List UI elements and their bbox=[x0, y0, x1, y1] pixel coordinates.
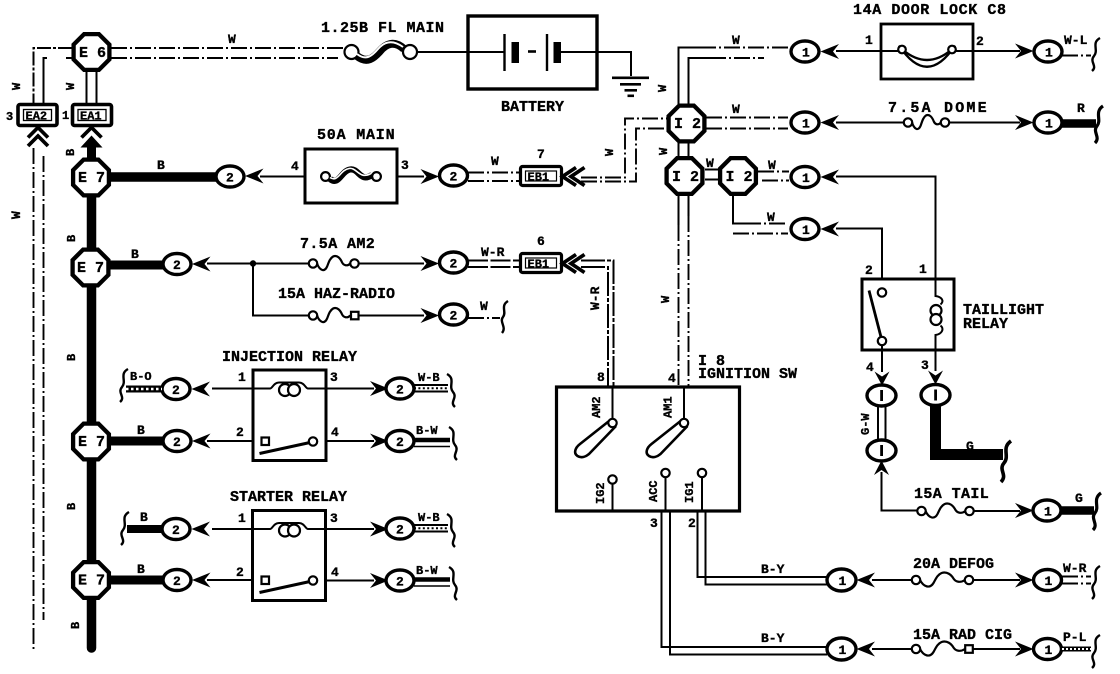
arrow right starter row2 bbox=[370, 573, 389, 588]
svg-text:1: 1 bbox=[1045, 117, 1053, 132]
svg-text:2: 2 bbox=[173, 435, 181, 450]
wire: I2 no.1 to I2 no.2 link bbox=[679, 142, 689, 157]
svg-text:AM1: AM1 bbox=[662, 396, 676, 418]
svg-text:R: R bbox=[1077, 101, 1085, 116]
wire B-O hatched left of oval bbox=[126, 386, 162, 393]
fuse 15A TAIL bbox=[917, 503, 973, 517]
svg-text:EA1: EA1 bbox=[80, 110, 102, 124]
squiggle right B-W injection bbox=[449, 427, 457, 460]
svg-text:2: 2 bbox=[173, 574, 181, 589]
wire: pin4 down bbox=[881, 350, 883, 372]
wire P-L hatched bbox=[1062, 647, 1091, 652]
wire: starter row1 left bbox=[212, 528, 253, 530]
svg-text:B: B bbox=[69, 622, 83, 629]
wire: I2 no.1 up to door lock row (W pair) bbox=[679, 48, 789, 105]
svg-text:B: B bbox=[131, 247, 139, 262]
connector oval 1 dome right bbox=[1034, 112, 1062, 133]
wire: 50A box to right arrow bbox=[397, 176, 424, 178]
wire bar B: E7#1 to connector bbox=[92, 172, 220, 182]
arrow left door lock bbox=[821, 44, 840, 59]
connector EA2 box bbox=[18, 105, 57, 126]
arrow left starter row1 bbox=[192, 522, 211, 537]
svg-text:B-Y: B-Y bbox=[761, 562, 785, 577]
wire: to taillight relay pin 1 bbox=[836, 177, 936, 280]
svg-text:W: W bbox=[64, 82, 78, 90]
svg-text:B: B bbox=[65, 354, 79, 361]
arrow right injection row1 bbox=[370, 381, 389, 396]
wire: E6 right upper W dash-dot to fusible link bbox=[111, 47, 344, 49]
connector oval 2 row 50A left bbox=[216, 166, 244, 187]
svg-text:1: 1 bbox=[865, 33, 873, 48]
wire: W-R pair to EB1-6 bbox=[468, 261, 520, 268]
arrow left pin1 row bbox=[821, 170, 840, 185]
svg-text:3: 3 bbox=[330, 370, 338, 385]
svg-text:IG1: IG1 bbox=[683, 481, 697, 503]
wire: EB1-7 dash-dot up to I2 no.1 bbox=[581, 119, 667, 178]
AM1 contact and wire bbox=[683, 387, 685, 419]
svg-text:W: W bbox=[480, 299, 488, 314]
wire: W-R from EB1-6 down to ignition pin 8 bbox=[581, 261, 614, 388]
svg-text:ACC: ACC bbox=[647, 480, 661, 502]
svg-text:1: 1 bbox=[802, 46, 810, 61]
wire: arrow to 50A box bbox=[260, 176, 305, 178]
fuse 7.5A AM2 bbox=[309, 256, 359, 270]
svg-text:W: W bbox=[706, 156, 714, 171]
wire: injection row2 right bbox=[326, 440, 374, 442]
wire: to taillight relay pin 2 bbox=[836, 229, 882, 280]
arrow left at 50A row bbox=[245, 169, 264, 184]
squiggle right B-W starter bbox=[449, 567, 457, 600]
wire: arrow to door lock box bbox=[836, 50, 881, 52]
connector oval 1 defog left bbox=[827, 569, 856, 591]
svg-text:EA2: EA2 bbox=[26, 110, 48, 124]
svg-text:W: W bbox=[767, 210, 775, 225]
svg-text:EB1: EB1 bbox=[528, 171, 550, 185]
arrow right at AM2 row bbox=[421, 256, 440, 271]
lever AM2 bbox=[575, 419, 617, 457]
squiggle left B starter bbox=[121, 512, 129, 545]
svg-text:4: 4 bbox=[331, 565, 339, 580]
wire G thick from pin3 oval bbox=[936, 406, 1004, 455]
arrow right starter row1 bbox=[370, 522, 389, 537]
svg-text:1: 1 bbox=[238, 370, 246, 385]
octagon E7 no.2 bbox=[73, 250, 109, 286]
squiggle R end bbox=[1095, 106, 1103, 143]
connector oval 2 starter row2 left bbox=[163, 570, 191, 591]
taillight relay coil bbox=[931, 279, 943, 350]
wire B thick left of oval bbox=[127, 525, 162, 533]
wire: E6 bottom to EA1 (two verticals) bbox=[87, 70, 97, 104]
wire: I2 no.2 to I2 no.3 link bbox=[705, 170, 719, 180]
wire: injection row1 right to arrow bbox=[326, 388, 374, 390]
svg-text:W: W bbox=[657, 147, 671, 155]
arrow down pin3 bbox=[928, 371, 943, 385]
svg-text:2: 2 bbox=[450, 309, 458, 324]
svg-text:14A DOOR LOCK C8: 14A DOOR LOCK C8 bbox=[853, 2, 1007, 19]
svg-text:B-O: B-O bbox=[130, 370, 152, 384]
arrow up below G-W oval bbox=[874, 461, 889, 476]
ACC contact and wire bbox=[661, 469, 669, 510]
wire: injection row1 left bbox=[212, 388, 253, 390]
svg-text:B: B bbox=[65, 235, 79, 242]
arrow right defog bbox=[1015, 573, 1034, 588]
octagon I2 no.2 bbox=[667, 158, 703, 194]
svg-text:1: 1 bbox=[62, 109, 69, 123]
wire B-Y: IG1 to defog row bbox=[698, 511, 828, 585]
arrow right dome bbox=[1015, 115, 1034, 130]
svg-text:2: 2 bbox=[172, 383, 180, 398]
svg-text:E 6: E 6 bbox=[79, 45, 106, 62]
octagon E7 no.4 bbox=[73, 562, 109, 598]
svg-text:3: 3 bbox=[650, 516, 658, 531]
switch contacts starter relay bbox=[260, 576, 318, 592]
svg-text:B: B bbox=[137, 562, 145, 577]
breaker element bbox=[881, 46, 973, 67]
AM2 contact and wire bbox=[612, 387, 614, 419]
svg-text:8: 8 bbox=[597, 370, 605, 385]
svg-text:2: 2 bbox=[173, 258, 181, 273]
chevron arrows under EA2 bbox=[28, 128, 48, 147]
wire: EA2 down W dash-dot pair to bottom bbox=[34, 148, 44, 650]
squiggle W-L end bbox=[1092, 38, 1100, 71]
connector EB1 box no.7 bbox=[521, 167, 562, 186]
svg-text:W: W bbox=[768, 158, 776, 173]
svg-text:2: 2 bbox=[976, 34, 984, 49]
double chevron at EB1-6 bbox=[563, 255, 585, 273]
svg-text:INJECTION RELAY: INJECTION RELAY bbox=[222, 349, 357, 366]
svg-text:W: W bbox=[10, 82, 24, 90]
connector oval 1 rad cig left bbox=[827, 638, 856, 660]
arrow down pin4 bbox=[875, 372, 890, 386]
connector oval 2 injection row2 right bbox=[386, 431, 414, 452]
double chevron at EB1-7 bbox=[563, 168, 585, 186]
svg-text:W-R: W-R bbox=[481, 245, 505, 260]
octagon E6 bbox=[74, 34, 110, 70]
connector oval 2 row HAZ right bbox=[440, 304, 468, 325]
connector oval 1 door lock left bbox=[791, 41, 819, 62]
wire W-L dash bbox=[1062, 55, 1091, 57]
wire bar B: E7#4 to connector bbox=[92, 576, 166, 585]
wire: battery to ground bbox=[597, 52, 631, 76]
wire R thick bbox=[1062, 119, 1096, 128]
ground symbol bbox=[612, 78, 649, 96]
connector oval 1 tail right bbox=[1033, 500, 1061, 521]
squiggle left B-O bbox=[120, 369, 128, 402]
coil injection relay bbox=[253, 383, 326, 397]
svg-text:W: W bbox=[228, 32, 236, 47]
svg-text:2: 2 bbox=[396, 435, 404, 450]
svg-text:W: W bbox=[491, 154, 499, 169]
svg-text:1: 1 bbox=[238, 511, 246, 526]
svg-text:3: 3 bbox=[401, 158, 409, 173]
svg-text:E 7: E 7 bbox=[78, 170, 105, 187]
wire: pin3 down bbox=[935, 350, 937, 371]
arrow left defog bbox=[857, 573, 876, 588]
taillight relay contacts and blade bbox=[869, 288, 886, 350]
squiggle G end bbox=[1001, 441, 1011, 482]
svg-text:2: 2 bbox=[226, 171, 234, 186]
svg-text:50A MAIN: 50A MAIN bbox=[317, 127, 395, 144]
fusible link 1.25B FL MAIN symbol bbox=[345, 42, 418, 60]
wire: E6 left lower to EA2 bbox=[44, 58, 73, 104]
circuit breaker box 14A DOOR LOCK bbox=[881, 24, 973, 79]
svg-text:RELAY: RELAY bbox=[963, 316, 1008, 333]
connector oval 1 dome left bbox=[791, 112, 819, 133]
svg-text:1: 1 bbox=[1045, 574, 1053, 589]
wire: box to right arrow door lock bbox=[973, 50, 1020, 52]
connector oval 1 rad cig right bbox=[1034, 639, 1062, 660]
svg-text:I 2: I 2 bbox=[674, 116, 701, 133]
svg-text:W: W bbox=[732, 33, 740, 48]
svg-text:1: 1 bbox=[802, 171, 810, 186]
wire G-W pair bbox=[878, 406, 886, 441]
svg-text:W: W bbox=[659, 295, 673, 303]
IG2 contact and wire bbox=[608, 475, 616, 509]
wire: fuse to arrow defog bbox=[973, 579, 1020, 581]
svg-text:1: 1 bbox=[1045, 46, 1053, 61]
svg-text:B-W: B-W bbox=[416, 424, 438, 438]
wire: arrow to rad cig fuse bbox=[872, 648, 912, 650]
wire: arrow to dome fuse bbox=[836, 122, 904, 124]
svg-text:2: 2 bbox=[396, 575, 404, 590]
svg-text:B: B bbox=[65, 503, 79, 510]
wire: starter row1 right bbox=[326, 528, 375, 530]
svg-text:E 7: E 7 bbox=[78, 573, 105, 590]
connector oval G-W bottom bbox=[867, 440, 896, 461]
stub W wires to row3 oval bbox=[758, 172, 789, 181]
connector oval 1 relay pin1 feed row bbox=[791, 167, 819, 188]
chevron arrow under EA1 bbox=[82, 128, 102, 138]
arrow left injection row1 bbox=[192, 382, 211, 397]
trunk wire B: main vertical black trunk bbox=[87, 158, 97, 648]
wire: fuse to right arrow dome bbox=[949, 122, 1020, 124]
svg-text:1: 1 bbox=[1045, 643, 1053, 658]
svg-text:W: W bbox=[9, 211, 24, 219]
wire: junction down to HAZ-RADIO fuse bbox=[253, 264, 309, 316]
svg-text:W: W bbox=[732, 102, 740, 117]
squiggle P-L end bbox=[1092, 635, 1100, 668]
connector EB1 box no.6 bbox=[521, 254, 562, 273]
wire: fuse to right arrow HAZ row bbox=[359, 315, 424, 317]
squiggle end HAZ W wire bbox=[502, 301, 508, 333]
svg-text:1: 1 bbox=[839, 574, 847, 589]
svg-text:1: 1 bbox=[839, 643, 847, 658]
arrow left pin2 row bbox=[821, 222, 840, 237]
svg-text:IGNITION SW: IGNITION SW bbox=[698, 366, 797, 383]
svg-text:15A RAD CIG: 15A RAD CIG bbox=[913, 627, 1012, 644]
relay box starter bbox=[253, 511, 326, 601]
wire B-Y: ACC to rad cig row bbox=[662, 511, 828, 655]
wire G thick tail bbox=[1061, 506, 1094, 515]
svg-text:B: B bbox=[157, 158, 165, 173]
svg-text:B-Y: B-Y bbox=[761, 631, 785, 646]
arrow left at AM2 row bbox=[192, 257, 211, 272]
arrow left rad cig bbox=[857, 642, 876, 657]
wire: I2 no.2 down to ignition pin 4 dash-dot pair bbox=[679, 194, 689, 387]
connector oval pin3 bbox=[921, 385, 950, 406]
svg-text:2: 2 bbox=[450, 170, 458, 185]
wire W-R dash pair bbox=[1062, 577, 1091, 584]
wire: I2 no.1 right to DOME row (W dash pair) bbox=[706, 118, 788, 129]
svg-text:7.5A DOME: 7.5A DOME bbox=[888, 100, 989, 117]
connector oval G-W top bbox=[867, 385, 896, 406]
connector oval 2 starter row1 right bbox=[386, 518, 414, 539]
connector oval 2 injection row1 left bbox=[162, 379, 190, 400]
octagon I2 no.1 bbox=[669, 106, 705, 142]
wire: arrow to defog fuse bbox=[872, 579, 912, 581]
wire: E6 left upper to EA2 (corner at x33.5) bbox=[34, 48, 73, 104]
svg-text:2: 2 bbox=[396, 383, 404, 398]
svg-text:6: 6 bbox=[537, 234, 545, 249]
svg-text:2: 2 bbox=[236, 565, 244, 580]
svg-text:G: G bbox=[966, 439, 974, 454]
wire W-B right of oval bbox=[414, 385, 448, 392]
connector oval 2 starter row1 left bbox=[162, 519, 190, 540]
svg-text:STARTER RELAY: STARTER RELAY bbox=[230, 489, 347, 506]
wire: fuse to right arrow AM2 row bbox=[359, 263, 424, 265]
connector oval 1 defog right bbox=[1034, 570, 1062, 591]
octagon E7 no.1 bbox=[73, 160, 109, 196]
ignition switch box I8 bbox=[557, 387, 740, 511]
wire: fuse to arrow rad cig bbox=[973, 648, 1020, 650]
wire: fuse to arrow 15A TAIL bbox=[974, 510, 1020, 512]
wire: arrow to relay box starter row2 bbox=[207, 579, 253, 581]
svg-text:P-L: P-L bbox=[1063, 630, 1087, 645]
wire: I2 no.3 down and right to row4 oval bbox=[733, 195, 788, 234]
wire W-B right starter bbox=[414, 525, 448, 532]
svg-text:2: 2 bbox=[865, 263, 873, 278]
arrow right injection row2 bbox=[370, 434, 389, 449]
svg-text:2: 2 bbox=[450, 257, 458, 272]
battery box bbox=[468, 16, 597, 89]
connector oval 2 injection row2 left bbox=[163, 431, 191, 452]
coil starter relay bbox=[253, 523, 326, 537]
svg-text:3: 3 bbox=[921, 358, 929, 373]
connector oval 2 starter row2 right bbox=[386, 570, 414, 591]
svg-text:1: 1 bbox=[802, 117, 810, 132]
octagon E7 no.3 bbox=[73, 424, 109, 460]
arrow right at HAZ row bbox=[421, 308, 440, 323]
fuse 20A DEFOG bbox=[912, 572, 973, 586]
squiggle right W-B starter bbox=[447, 514, 455, 547]
svg-text:1: 1 bbox=[802, 223, 810, 238]
connector oval 2 row 50A right bbox=[440, 165, 468, 186]
arrow right door lock bbox=[1015, 44, 1034, 59]
svg-text:W: W bbox=[603, 148, 617, 156]
junction node dot bbox=[250, 260, 256, 266]
svg-text:7.5A AM2: 7.5A AM2 bbox=[300, 236, 375, 253]
svg-text:B: B bbox=[140, 510, 148, 525]
wire B-W right starter bbox=[414, 580, 450, 587]
svg-text:W-B: W-B bbox=[418, 371, 440, 385]
arrow right at 50A row bbox=[421, 169, 440, 184]
svg-text:4: 4 bbox=[331, 425, 339, 440]
squiggle right W-B injection bbox=[447, 374, 455, 407]
squiggle G tail end bbox=[1093, 493, 1101, 530]
connector oval 2 row AM2 right bbox=[440, 252, 468, 273]
svg-text:I 2: I 2 bbox=[672, 169, 699, 186]
squiggle W-R end bbox=[1092, 566, 1100, 599]
connector EA1 box bbox=[73, 105, 112, 126]
connector oval 2 injection row1 right bbox=[386, 378, 414, 399]
svg-text:2: 2 bbox=[236, 425, 244, 440]
wire: E6 right lower W dash-dot bbox=[111, 57, 338, 59]
wire bar B: E7#3 to connector bbox=[92, 437, 166, 446]
svg-text:1: 1 bbox=[919, 262, 927, 277]
arrow left dome bbox=[821, 115, 840, 130]
fuse box 50A MAIN bbox=[305, 149, 397, 203]
svg-text:1: 1 bbox=[1044, 505, 1052, 520]
relay box injection bbox=[253, 370, 326, 461]
wire: second dash line EB1-7 to I2 bbox=[581, 129, 667, 182]
svg-text:G: G bbox=[1075, 491, 1083, 506]
wire: arrow to relay box row2 bbox=[207, 440, 253, 442]
svg-text:15A TAIL: 15A TAIL bbox=[914, 486, 989, 503]
svg-text:20A DEFOG: 20A DEFOG bbox=[913, 556, 994, 573]
svg-text:W-R: W-R bbox=[588, 286, 603, 310]
lever AM1 bbox=[647, 419, 689, 457]
svg-text:3: 3 bbox=[330, 511, 338, 526]
switch contacts injection relay bbox=[260, 437, 318, 453]
svg-text:B: B bbox=[64, 149, 78, 156]
IG1 contact and wire bbox=[698, 469, 706, 510]
fusible link inside 50A MAIN bbox=[321, 168, 381, 181]
fuse 7.5A DOME bbox=[904, 115, 949, 129]
svg-text:E 7: E 7 bbox=[77, 260, 104, 277]
svg-text:W-B: W-B bbox=[418, 511, 440, 525]
arrow left starter row2 bbox=[192, 573, 211, 588]
svg-text:3: 3 bbox=[6, 110, 13, 124]
svg-text:4: 4 bbox=[668, 371, 676, 386]
svg-text:2: 2 bbox=[688, 516, 696, 531]
wire: down and right to 15A TAIL fuse bbox=[882, 472, 918, 511]
wire: W dash pair to EB1-7 bbox=[468, 173, 520, 182]
svg-text:4: 4 bbox=[866, 360, 874, 375]
svg-text:1.25B FL MAIN: 1.25B FL MAIN bbox=[321, 20, 445, 37]
arrow right 15A TAIL bbox=[1015, 503, 1034, 518]
arrow left injection row2 bbox=[192, 434, 211, 449]
wire bar B: E7#2 to connector bbox=[92, 261, 166, 270]
svg-text:2: 2 bbox=[396, 523, 404, 538]
wire: W dash to squiggle bbox=[468, 317, 500, 319]
fuse 15A HAZ-RADIO bbox=[309, 308, 359, 322]
fuse 15A RAD CIG bbox=[912, 641, 973, 655]
battery cell plates bbox=[468, 34, 597, 71]
svg-text:4: 4 bbox=[291, 159, 299, 174]
svg-text:IG2: IG2 bbox=[594, 482, 608, 504]
svg-text:E 7: E 7 bbox=[78, 434, 105, 451]
connector oval 2 row AM2 left bbox=[163, 254, 191, 275]
wire: starter row2 right bbox=[326, 580, 375, 582]
svg-text:W: W bbox=[656, 84, 670, 92]
arrow right rad cig bbox=[1015, 642, 1034, 657]
wire B-W right bbox=[414, 440, 450, 447]
wire: fusible link to battery bbox=[417, 51, 468, 53]
taillight relay box bbox=[862, 279, 954, 350]
svg-text:W-R: W-R bbox=[1063, 561, 1087, 576]
svg-text:W-L: W-L bbox=[1064, 33, 1088, 48]
connector oval 1 relay pin2 feed row bbox=[791, 219, 819, 240]
octagon I2 no.3 bbox=[720, 158, 756, 194]
svg-text:B-W: B-W bbox=[416, 564, 438, 578]
svg-text:B: B bbox=[137, 423, 145, 438]
svg-text:15A HAZ-RADIO: 15A HAZ-RADIO bbox=[278, 286, 395, 303]
svg-text:EB1: EB1 bbox=[528, 258, 550, 272]
svg-text:7: 7 bbox=[537, 147, 545, 162]
wire: arrow to junction to fuse bbox=[207, 263, 309, 265]
svg-text:2: 2 bbox=[172, 523, 180, 538]
svg-text:AM2: AM2 bbox=[590, 396, 604, 418]
